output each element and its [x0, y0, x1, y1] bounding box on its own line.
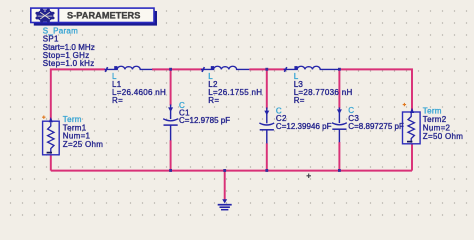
- ground rail wire (bottom): [51, 170, 412, 172]
- wire node3 down to C2: [266, 69, 268, 108]
- wire L3 pin2 to Term2 (node 4): [339, 69, 412, 112]
- capacitor C1: [163, 105, 178, 141]
- simulation gear icon: [35, 8, 54, 22]
- inductor L3: [284, 66, 340, 72]
- wire C3 bottom to ground rail: [338, 142, 340, 171]
- label L2: [208, 72, 262, 105]
- label Term2: [423, 106, 463, 141]
- svg-text:R=: R=: [112, 96, 123, 105]
- svg-text:Z=25 Ohm: Z=25 Ohm: [63, 140, 103, 149]
- S-PARAMETERS controller box shadow: [34, 11, 157, 26]
- wire L1 pin2 to L2 pin1 (node 2): [152, 68, 203, 70]
- junction ground stem on rail: [223, 169, 226, 172]
- wire L2 pin2 to L3 pin1 (node 3): [249, 68, 285, 70]
- label L3: [294, 72, 353, 105]
- inductor L1: [105, 66, 153, 72]
- svg-text:Step=1.0 kHz: Step=1.0 kHz: [43, 59, 95, 68]
- junction C1 bottom on ground rail: [169, 169, 172, 172]
- terminal Term1: [42, 116, 59, 155]
- S-PARAMETERS controller box: [31, 8, 154, 22]
- ground symbol: [218, 199, 232, 210]
- wire node2 down to C1: [170, 69, 172, 105]
- label C2: [276, 106, 332, 130]
- junction node4 at C3 top: [338, 68, 341, 71]
- label C1: [179, 101, 230, 125]
- wire Term1 bottom to ground rail: [50, 155, 52, 171]
- capacitor C3: [332, 108, 347, 143]
- label L1: [112, 72, 166, 105]
- junction C2 bottom on ground rail: [265, 169, 268, 172]
- wire C1 bottom to ground rail: [170, 140, 172, 170]
- wire Term1 top to L1 pin1 (node 1): [51, 69, 105, 121]
- inductor L2: [201, 66, 249, 72]
- label C3: [348, 106, 404, 131]
- svg-text:R=: R=: [294, 96, 305, 105]
- wire Term2 bottom to ground rail: [411, 143, 413, 171]
- terminal Term2: [403, 103, 421, 144]
- plus marker annotation: [307, 174, 312, 179]
- svg-text:Z=50 Ohm: Z=50 Ohm: [423, 132, 463, 141]
- label Term1: [63, 115, 103, 149]
- junction node2 at C1 top: [169, 68, 172, 71]
- svg-text:C=12.39946 pF: C=12.39946 pF: [276, 122, 332, 131]
- junction node3 at C2 top: [265, 68, 268, 71]
- svg-text:S-PARAMETERS: S-PARAMETERS: [67, 10, 140, 20]
- S_Param SP1 settings label: [43, 27, 95, 69]
- wire C2 bottom to ground rail: [266, 143, 268, 170]
- wire ground stem: [224, 171, 226, 200]
- svg-text:C=8.897275 pF: C=8.897275 pF: [348, 122, 404, 131]
- title text S-PARAMETERS: [67, 10, 140, 20]
- wire node4 down to C3: [338, 69, 340, 108]
- capacitor C2: [259, 108, 274, 144]
- junction C3 bottom on ground rail: [338, 169, 341, 172]
- svg-text:C=12.9785 pF: C=12.9785 pF: [179, 116, 230, 125]
- svg-text:R=: R=: [208, 96, 219, 105]
